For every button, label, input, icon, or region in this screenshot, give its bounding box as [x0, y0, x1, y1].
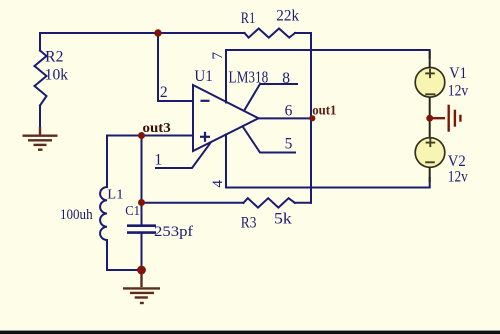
wire noninverting input (out3 node): [107, 135, 193, 137]
wire R2 bottom lead to ground: [39, 106, 41, 128]
wire rail x=311 (R1/out1/R3 feedback rail): [310, 33, 312, 203]
V2 bottom pin lead: [429, 167, 431, 182]
wire left branch down to L1: [106, 136, 108, 188]
capacitor C1 plates: [127, 226, 156, 233]
svg-text:12v: 12v: [448, 83, 468, 100]
svg-text:U1: U1: [194, 68, 212, 85]
earth symbol at V1/V2 midpoint: [430, 105, 460, 132]
junction node R3/C1 tap: [138, 199, 145, 206]
wire op-amp output pin6: [258, 117, 311, 119]
svg-text:22k: 22k: [276, 7, 299, 24]
svg-text:5: 5: [285, 136, 293, 153]
wire R3 left lead: [142, 202, 244, 204]
svg-text:1: 1: [154, 152, 162, 169]
resistor R2 zigzag: [35, 51, 47, 106]
svg-text:R2: R2: [45, 48, 63, 65]
svg-text:R1: R1: [241, 10, 256, 27]
bottom white strip: [0, 328, 500, 330]
svg-text:100uh: 100uh: [60, 207, 93, 223]
op-amp pin5 stub: [243, 127, 295, 153]
V1 pin leads: [429, 51, 431, 138]
ground under R2: [23, 127, 58, 150]
junction node between V1 and V2: [426, 115, 433, 122]
junction node on top rail (pin2 tap): [154, 29, 161, 36]
wire pin2 branch from top rail: [158, 33, 193, 101]
svg-text:LM318: LM318: [229, 68, 269, 87]
svg-text:R3: R3: [241, 214, 257, 231]
wire L1 bottom to ground corner: [107, 240, 142, 270]
svg-text:12v: 12v: [448, 169, 468, 186]
svg-text:7: 7: [210, 52, 226, 60]
svg-text:2: 2: [160, 84, 168, 101]
wire top rail left (R2 top to R1 left): [40, 32, 245, 34]
svg-text:253pf: 253pf: [154, 224, 193, 240]
wire R2 top lead: [39, 33, 41, 51]
ground under C1: [123, 272, 160, 303]
svg-text:6: 6: [285, 102, 293, 119]
wire C1 bottom lead: [141, 233, 143, 270]
resistor R3 zigzag: [244, 198, 295, 207]
inductor L1 coil arcs: [100, 187, 107, 240]
junction node out1: [309, 115, 315, 121]
junction node out3: [138, 132, 145, 139]
bottom border line: [0, 331, 500, 334]
svg-text:10k: 10k: [45, 66, 69, 83]
wire pin7 to V1 rail: [226, 50, 430, 103]
op-amp pin1 stub: [156, 144, 210, 169]
svg-text:L1: L1: [107, 187, 123, 202]
V2 source circle: [415, 138, 445, 168]
svg-text:V2: V2: [448, 153, 466, 170]
V1 source circle: [415, 68, 445, 98]
wire pin4 to V2 bottom: [226, 135, 430, 188]
svg-text:5k: 5k: [274, 211, 292, 228]
wire R3 right lead: [295, 202, 311, 204]
op-amp pin8 stub: [245, 84, 298, 110]
op-amp plus sign: [200, 132, 210, 142]
svg-text:V1: V1: [449, 65, 467, 82]
svg-text:4: 4: [210, 180, 226, 188]
op-amp U1 triangle: [193, 85, 259, 151]
wire R1 right to rail corner: [295, 32, 311, 34]
svg-text:8: 8: [282, 70, 290, 87]
svg-text:C1: C1: [125, 204, 140, 219]
op-amp minus sign: [201, 100, 210, 102]
junction node ground corner: [137, 266, 146, 275]
svg-text:out1: out1: [312, 102, 336, 117]
wire C1 top lead: [141, 136, 143, 226]
svg-text:out3: out3: [143, 121, 171, 136]
resistor R1 zigzag: [245, 29, 296, 38]
